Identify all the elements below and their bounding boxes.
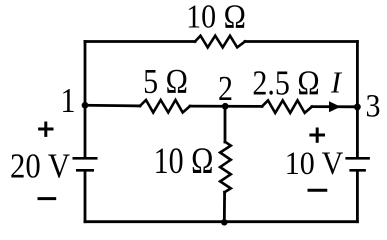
svg-text:2: 2: [218, 70, 233, 109]
resistor R2 5 ohm zigzag: [140, 100, 190, 113]
wire node2 down to R4: [224, 106, 227, 142]
resistor R3 2.5 ohm zigzag: [262, 100, 312, 113]
wire bottom: [85, 220, 357, 223]
wire right branch lower: [356, 172, 359, 222]
svg-text:I: I: [330, 65, 343, 99]
bottom junction dot: [221, 219, 228, 226]
wire node1 to R2: [85, 104, 140, 107]
wire R2 to node2 to R3: [190, 105, 262, 108]
svg-text:10 Ω: 10 Ω: [186, 0, 246, 35]
plus sign V2: [309, 134, 325, 137]
minus sign V1: [38, 197, 57, 200]
wire left branch upper: [84, 42, 87, 158]
svg-text:10 V: 10 V: [285, 144, 344, 181]
battery V2 10V long plate: [345, 157, 370, 160]
svg-text:10 Ω: 10 Ω: [154, 141, 214, 181]
resistor R4 10 ohm vertical zigzag: [220, 142, 231, 192]
node 1 junction dot: [82, 102, 89, 109]
wire top-right segment: [245, 40, 357, 43]
wire right branch upper: [356, 42, 359, 158]
wire top-left segment: [85, 40, 195, 43]
wire left branch lower: [84, 172, 87, 222]
battery V1 20V short plate: [76, 169, 94, 172]
svg-text:2.5 Ω: 2.5 Ω: [252, 64, 319, 103]
minus sign V2: [308, 189, 328, 192]
resistor R top 10 ohm zigzag: [195, 36, 245, 48]
svg-text:3: 3: [366, 87, 381, 124]
wire R4 to bottom junction: [223, 192, 226, 222]
battery V2 10V short plate: [349, 169, 366, 172]
svg-text:1: 1: [60, 82, 75, 121]
plus sign V1: [38, 128, 53, 131]
current arrow head: [329, 101, 341, 112]
wire R3 to node3: [312, 105, 357, 108]
svg-text:20 V: 20 V: [10, 147, 70, 186]
battery V1 20V long plate: [73, 157, 98, 160]
svg-text:5 Ω: 5 Ω: [143, 63, 188, 102]
node 2 junction dot: [222, 103, 229, 110]
node 3 junction dot: [354, 103, 361, 110]
